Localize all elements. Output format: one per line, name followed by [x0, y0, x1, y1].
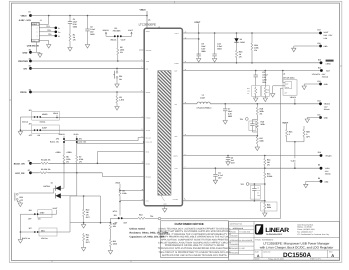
svg-text:J1: J1 [40, 19, 42, 22]
wire JP4 left pin join ground drop [20, 129, 34, 131]
svg-text:R13: R13 [139, 214, 142, 217]
svg-text:E7: E7 [28, 169, 30, 172]
resistor R1 [69, 33, 71, 42]
title block approvals column [253, 222, 255, 261]
svg-text:12: 12 [185, 61, 187, 63]
wire JP1 right net arrow [122, 33, 132, 36]
svg-text:E12: E12 [318, 99, 321, 102]
svg-text:LDO_ON: LDO_ON [15, 172, 25, 175]
svg-text:2.05M: 2.05M [267, 175, 273, 178]
svg-text:APPROVALS: APPROVALS [233, 227, 244, 230]
wire E6 to R4 [31, 162, 41, 164]
wire LDO FB rail [182, 200, 264, 202]
svg-text:DRAWN: DRAWN [230, 230, 237, 233]
turret E8 VLDO [320, 167, 323, 170]
svg-text:2.6V - 5.5V: 2.6V - 5.5V [324, 34, 334, 37]
node C3 [227, 155, 229, 157]
svg-text:A: A [331, 253, 334, 258]
node BAT C6 [255, 70, 257, 72]
wire CHRG rail [182, 62, 321, 64]
testpoint TP6 [158, 217, 161, 220]
svg-text:J2: J2 [283, 73, 285, 76]
resistor R17 [256, 136, 258, 145]
resistor R7 [76, 143, 78, 154]
capacitor C9 [197, 54, 201, 56]
svg-text:OPEN: OPEN [67, 151, 73, 154]
zone tick bottom [130, 260, 132, 262]
svg-text:DATE:: DATE: [255, 258, 260, 261]
svg-text:GND: GND [23, 51, 28, 54]
svg-text:VBUCK: VBUCK [59, 133, 66, 136]
wire E2 to J1 shield [31, 42, 41, 53]
svg-text:HPWR: HPWR [42, 113, 48, 116]
ground C10 [212, 59, 216, 63]
resistor R24 [251, 33, 253, 42]
resistor R13 [137, 217, 146, 219]
wire JP6 to IC LDO_ON pin [77, 141, 144, 143]
resistor R9 [119, 188, 121, 197]
svg-text:E6: E6 [28, 159, 30, 162]
svg-text:E13: E13 [318, 80, 321, 83]
svg-text:E8: E8 [318, 164, 320, 167]
wire E7 to R5 [31, 172, 40, 174]
resistor R13b thermistor [109, 239, 111, 248]
turret E4 ON [29, 67, 32, 70]
svg-text:D2: D2 [240, 38, 242, 41]
svg-text:10uH: 10uH [200, 97, 205, 100]
wire R25 node to VLDO rail [294, 142, 296, 168]
ground C4 [213, 180, 217, 184]
svg-text:R. HAMILTON: R. HAMILTON [239, 230, 251, 233]
svg-text:JP2: JP2 [114, 214, 117, 217]
svg-text:THIS CIRCUIT IS PROPRIETARY TO: THIS CIRCUIT IS PROPRIETARY TO LINEAR TE… [158, 251, 230, 254]
svg-text:TECHNOLOGY APPLICATIONS ENGINE: TECHNOLOGY APPLICATIONS ENGINEERING FOR … [158, 247, 232, 250]
wire JP7 left to ground [20, 231, 34, 233]
svg-text:USB Mini-B: USB Mini-B [27, 45, 39, 48]
svg-text:BUCK_ON: BUCK_ON [50, 141, 59, 144]
ground C6 R21 [254, 98, 258, 102]
wire NTC to JP2 [119, 202, 121, 216]
svg-text:15: 15 [185, 102, 187, 104]
svg-text:ON: ON [24, 67, 28, 70]
turret E2 GND [29, 51, 32, 54]
svg-text:VOUT: VOUT [282, 121, 289, 124]
turret E18 VRLDO [320, 154, 323, 157]
wire NTC pin rail [120, 200, 144, 202]
ground C7 [223, 121, 227, 125]
svg-text:0: 0 [289, 133, 290, 136]
resistor R25 [286, 124, 288, 129]
capacitor C1 [69, 16, 71, 22]
resistor R26 [303, 126, 305, 129]
svg-text:PB2: PB2 [20, 196, 23, 199]
svg-text:14: 14 [185, 134, 187, 136]
svg-text:D1: D1 [51, 181, 53, 184]
svg-text:17: 17 [142, 199, 144, 201]
ground E13 [304, 84, 320, 86]
wire JP8 left to ground bus [20, 214, 34, 232]
capacitor C7 [224, 104, 226, 109]
svg-text:CPL2014-R50MLC: CPL2014-R50MLC [197, 106, 213, 109]
svg-text:VBUCK: VBUCK [103, 29, 110, 32]
svg-text:VLDO: VLDO [291, 160, 297, 163]
testpoint TP4 [245, 118, 248, 121]
svg-text:U1: U1 [148, 19, 150, 22]
svg-text:DWG NO: DWG NO [263, 251, 271, 254]
resistor R19 [256, 120, 258, 129]
Linear Technology logo [255, 224, 290, 236]
node PB1 [116, 68, 118, 70]
resistor R21 box [252, 86, 260, 97]
ground E9 [306, 181, 321, 184]
capacitor C6 [255, 71, 257, 76]
wire VOUT label drop [198, 24, 200, 56]
pushbutton PB1 [116, 68, 118, 71]
wire JP2 INT to R12 [111, 218, 119, 221]
resistor R22 box [264, 71, 266, 87]
resistor R2 [117, 37, 119, 47]
svg-text:200mA: 200mA [324, 108, 330, 111]
node VOUT D2 [236, 32, 238, 34]
capacitor C11 box [249, 121, 256, 131]
bottom row divider [254, 257, 340, 259]
node VBUCK R18 [257, 103, 259, 105]
svg-text:TP6: TP6 [150, 215, 153, 218]
wire J1 pin2 to TP1 [39, 27, 56, 29]
ground R10 [81, 225, 85, 229]
svg-text:1%: 1% [120, 51, 123, 54]
node VOUT C9 [198, 32, 200, 34]
wire VLDO rail [182, 167, 321, 169]
capacitor C5 box [251, 186, 261, 200]
jumper JP5 BUCK_ON [63, 136, 65, 138]
svg-text:DC1550A: DC1550A [283, 252, 311, 259]
turret E9 GND [320, 180, 323, 183]
svg-text:LINEAR: LINEAR [265, 227, 289, 234]
wire E4 rail to IC [31, 67, 145, 69]
svg-text:100mA: 100mA [40, 120, 46, 123]
ground C9 [197, 59, 201, 63]
svg-text:0603: 0603 [228, 115, 232, 118]
svg-text:E10: E10 [318, 42, 321, 45]
svg-text:VLDO: VLDO [74, 133, 80, 136]
svg-text:E1: E1 [29, 11, 31, 14]
resistor R23 [235, 50, 237, 59]
node R16 [264, 200, 266, 202]
wire J1 pin5 shield to ground [39, 41, 48, 45]
svg-text:1%: 1% [66, 160, 69, 163]
svg-text:JP4: JP4 [29, 123, 32, 126]
svg-text:PRGTMR: PRGTMR [113, 30, 121, 33]
turret E12 VBUCK [319, 102, 322, 105]
svg-text:CHRG: CHRG [240, 41, 246, 44]
svg-text:CHRG: CHRG [326, 62, 332, 65]
svg-text:1%: 1% [267, 163, 270, 166]
wire BAT to J2 [282, 70, 284, 72]
node VBUS C1 [69, 15, 71, 17]
svg-text:VBUCK: VBUCK [110, 39, 117, 42]
ground E2 [39, 52, 41, 54]
svg-text:JP7: JP7 [29, 227, 32, 230]
svg-text:SUSP: SUSP [42, 126, 48, 129]
ground R12 [108, 251, 112, 255]
svg-text:0603: 0603 [217, 47, 221, 50]
title block outline [229, 222, 340, 261]
resistor R4 [40, 162, 49, 164]
svg-text:16: 16 [142, 189, 144, 191]
svg-text:APPLICATION. COMPONENT SUBSTIT: APPLICATION. COMPONENT SUBSTITUTION AND … [161, 239, 228, 242]
svg-text:CUSTOMER NOTICE: CUSTOMER NOTICE [175, 222, 204, 226]
wire JP2 EXT to R13 [123, 217, 137, 219]
svg-text:0603: 0603 [73, 25, 77, 28]
turret E7 LDO_ON [29, 171, 32, 174]
svg-text:VBUS: VBUS [140, 8, 147, 11]
testpoint TP3 ID [55, 35, 58, 38]
wire VBUCK rail [210, 103, 320, 105]
jumper JP3 HPWR box [32, 111, 60, 120]
wire corner to ENLDO pin [102, 173, 144, 177]
svg-text:E17: E17 [318, 28, 321, 31]
svg-text:PRGTMR: PRGTMR [18, 60, 28, 63]
ground R11 [81, 248, 85, 252]
node VBUS C2 [87, 15, 89, 17]
svg-text:LDO 1st: LDO 1st [41, 237, 48, 240]
svg-text:VFLOAT 4 - 4.2V: VFLOAT 4 - 4.2V [312, 73, 326, 76]
ground R17 [255, 147, 259, 151]
ground J2 [271, 94, 275, 98]
node VOUT R24 [251, 32, 253, 34]
wire E3 rail to IC [31, 60, 145, 62]
svg-text:VBUS: VBUS [115, 181, 121, 184]
connector J1 USB Mini-B [31, 23, 39, 43]
svg-text:DF3-2P-2DSA: DF3-2P-2DSA [283, 77, 295, 80]
wire NTC rail [70, 222, 111, 224]
turret E6 BUCK_ON [29, 162, 32, 165]
wire R25 R26 join [287, 141, 304, 143]
svg-text:1%: 1% [239, 55, 242, 58]
resistor R12 [109, 221, 111, 230]
svg-text:20%: 20% [262, 81, 266, 84]
turret E16 BAT [320, 69, 323, 72]
svg-text:500mA: 500mA [322, 76, 328, 79]
testpoint TP5 [246, 183, 249, 186]
wire branch to EN pin [97, 152, 144, 164]
svg-text:M. GALLAGHER: M. GALLAGHER [239, 239, 252, 242]
svg-text:LTC Confidential-For Customer: LTC Confidential-For Customer Use Only [297, 233, 329, 236]
wire E5 rail to IC [31, 91, 145, 93]
ground R22 [263, 98, 267, 102]
ground R16 [263, 213, 267, 217]
turret E10 GND [319, 45, 322, 48]
svg-text:TP3: TP3 [48, 33, 51, 36]
node R3 [116, 91, 118, 93]
IC ground arrow below [164, 206, 166, 209]
wire SUSP rail to IC [41, 129, 144, 131]
svg-text:R4 10k 1%: R4 10k 1% [41, 159, 51, 162]
resistor R16 box [261, 202, 277, 211]
node VOUT C10 [214, 32, 216, 34]
logo address block [297, 223, 329, 236]
svg-text:150mA: 150mA [325, 173, 331, 176]
turret E15 CHRG [320, 61, 323, 64]
wire JP1 left net arrow [106, 33, 114, 36]
svg-text:E2: E2 [29, 49, 31, 52]
node C4 [215, 167, 217, 169]
ground E10 [294, 46, 321, 48]
wire VRLDO rail [182, 155, 321, 157]
ground PB2 [18, 203, 22, 207]
resistor R14 [264, 156, 266, 158]
IC GND pad leader [161, 196, 165, 202]
capacitor C10 [214, 33, 216, 54]
ground C1 R1 [68, 48, 72, 52]
wire R4 to IC [49, 162, 144, 164]
svg-text:with Li-Ion Charger, Buck DC/D: with Li-Ion Charger, Buck DC/DC, and LDO… [260, 246, 334, 250]
resistor R3 [116, 92, 118, 95]
svg-text:PB1: PB1 [119, 75, 122, 78]
testpoint TP2 D+ [55, 31, 58, 34]
wire R5 to IC [48, 172, 102, 174]
ground R3 [115, 107, 119, 111]
svg-text:E15: E15 [318, 58, 321, 61]
svg-text:TP5: TP5 [241, 183, 244, 186]
pin numbers right side [142, 31, 187, 201]
node VBUS J1 [48, 15, 50, 17]
node C7 [224, 103, 226, 105]
svg-text:1%: 1% [79, 160, 82, 163]
ground C2 [85, 45, 89, 49]
svg-text:VRLDO: VRLDO [325, 155, 332, 158]
wire D1 common to PB2 [19, 188, 56, 193]
turret E1 [29, 14, 32, 17]
size row divider [254, 249, 340, 251]
svg-text:USING TECHNOLOGY LICENSED UNDE: USING TECHNOLOGY LICENSED UNDER EFFORT T… [158, 227, 231, 230]
wire J1 pin1 to VBUS rail [39, 16, 48, 25]
svg-text:TECHNOLOGY: TECHNOLOGY [266, 233, 283, 236]
svg-text:Fax: (408)434-0507: Fax: (408)434-0507 [297, 230, 312, 233]
wire JP7 right to seq loop [39, 223, 71, 232]
svg-text:Unless noted:: Unless noted: [130, 228, 146, 231]
svg-text:BAT54C: BAT54C [44, 185, 51, 188]
wire stby loop [70, 196, 101, 223]
wire JP3 left pin to ground drop [20, 117, 34, 132]
svg-text:CIRCUIT THAT MEETS CUSTOMER-SU: CIRCUIT THAT MEETS CUSTOMER-SUPPLIED SPE… [158, 230, 231, 233]
svg-text:VERIFY PROPER AND RELIABLE OPE: VERIFY PROPER AND RELIABLE OPERATION IN … [160, 236, 230, 239]
svg-text:19: 19 [185, 37, 187, 39]
resistor R15 [264, 168, 266, 171]
capacitor C2 [87, 16, 89, 30]
rev cell [327, 250, 329, 258]
svg-text:JP6: JP6 [79, 137, 82, 140]
svg-text:E4: E4 [29, 65, 31, 68]
svg-text:APPROVED: APPROVED [230, 239, 240, 242]
IC U1 body [144, 28, 182, 206]
svg-text:PERFORMANCE OR RELIABILITY. C: PERFORMANCE OR RELIABILITY. CONTACT LINE… [165, 244, 224, 247]
turret E3 [29, 60, 32, 63]
svg-text:1%: 1% [73, 38, 76, 41]
pin stub OVP [182, 38, 198, 40]
zone tick bottom2 [51, 260, 53, 262]
wire VOUT rail [182, 32, 320, 34]
svg-text:BUCK_ON: BUCK_ON [14, 162, 25, 165]
wire J1 pin3 to TP2 [39, 31, 56, 33]
svg-text:E11: E11 [318, 113, 321, 116]
svg-text:E14: E14 [318, 66, 321, 69]
svg-text:S. YEE: S. YEE [239, 247, 245, 250]
wire VBUS rail [31, 15, 148, 17]
svg-text:PROG: PROG [20, 91, 27, 94]
ground JP3 JP4 [18, 132, 22, 136]
svg-text:E5: E5 [29, 88, 31, 91]
svg-text:OFF: OFF [29, 134, 33, 137]
svg-text:D+: D+ [58, 31, 60, 34]
wire JP5 to IC BUCK_ON pin [64, 138, 144, 141]
node R14 top [264, 155, 266, 157]
svg-text:VBUS: VBUS [21, 14, 28, 17]
wire HPWR rail to IC [41, 117, 144, 119]
wire R9 to NTCBIAS pin [119, 197, 121, 202]
wire TP5 to FB node [249, 183, 265, 185]
svg-text:L1: L1 [202, 94, 204, 97]
resistor R6 [63, 143, 65, 154]
capacitor C4 [214, 168, 216, 174]
svg-text:ENGINEER: ENGINEER [230, 243, 240, 246]
wire J2 gnd [273, 86, 285, 94]
svg-text:10: 10 [142, 162, 144, 164]
svg-text:JP5: JP5 [56, 137, 59, 140]
node R15 top [264, 167, 266, 169]
svg-text:1%: 1% [260, 112, 263, 115]
wire J1 pin4 to TP3 [39, 35, 56, 37]
pin stub PBSTAT [139, 49, 144, 51]
resistor R5 [39, 172, 48, 174]
svg-text:VOUT: VOUT [194, 21, 201, 24]
svg-text:CIRCUIT BOARD LAYOUT MAY SIGNI: CIRCUIT BOARD LAYOUT MAY SIGNIFICANTLY A… [158, 241, 231, 244]
node FB TP5 [264, 183, 266, 185]
LED D2 CHRG [236, 33, 238, 38]
svg-text:JP3: JP3 [29, 109, 32, 112]
svg-text:Friday, July 25, 2008: Friday, July 25, 2008 [268, 258, 284, 261]
svg-text:TP1: TP1 [46, 25, 49, 28]
svg-text:E3: E3 [29, 57, 31, 60]
svg-text:E9: E9 [318, 177, 320, 180]
svg-text:0402: 0402 [90, 33, 94, 36]
svg-text:OFF: OFF [28, 218, 32, 221]
turret E13 GND [319, 83, 322, 86]
jumper JP1 PWR PRGM [114, 35, 116, 37]
svg-text:4.25V - 5.5V: 4.25V - 5.5V [19, 19, 32, 22]
svg-text:VBUS: VBUS [53, 112, 59, 115]
ground J1 [47, 45, 51, 49]
svg-text:DESIGNER: DESIGNER [230, 247, 240, 250]
wire battery NTC riser [280, 88, 283, 218]
svg-text:JP8: JP8 [29, 209, 32, 212]
svg-text:1%: 1% [254, 49, 257, 52]
node VBUS label stub [146, 15, 148, 17]
customer notice box [161, 221, 229, 258]
svg-text:JP1: JP1 [114, 27, 117, 30]
capacitor C3 [227, 156, 229, 158]
svg-text:BUCK 1st: BUCK 1st [22, 237, 30, 240]
title row divider [254, 236, 340, 238]
testpoint TP1 D- [55, 27, 58, 30]
svg-text:SUPPLIED FOR USE WITH LINEAR T: SUPPLIED FOR USE WITH LINEAR TECHNOLOGY … [162, 254, 228, 257]
svg-text:DESIGNED: DESIGNED [230, 251, 240, 254]
svg-text:11: 11 [185, 69, 187, 71]
ground PB1 [115, 84, 119, 88]
resistor R10 [83, 196, 85, 209]
svg-text:CONTRACT NO.: CONTRACT NO. [230, 222, 243, 225]
